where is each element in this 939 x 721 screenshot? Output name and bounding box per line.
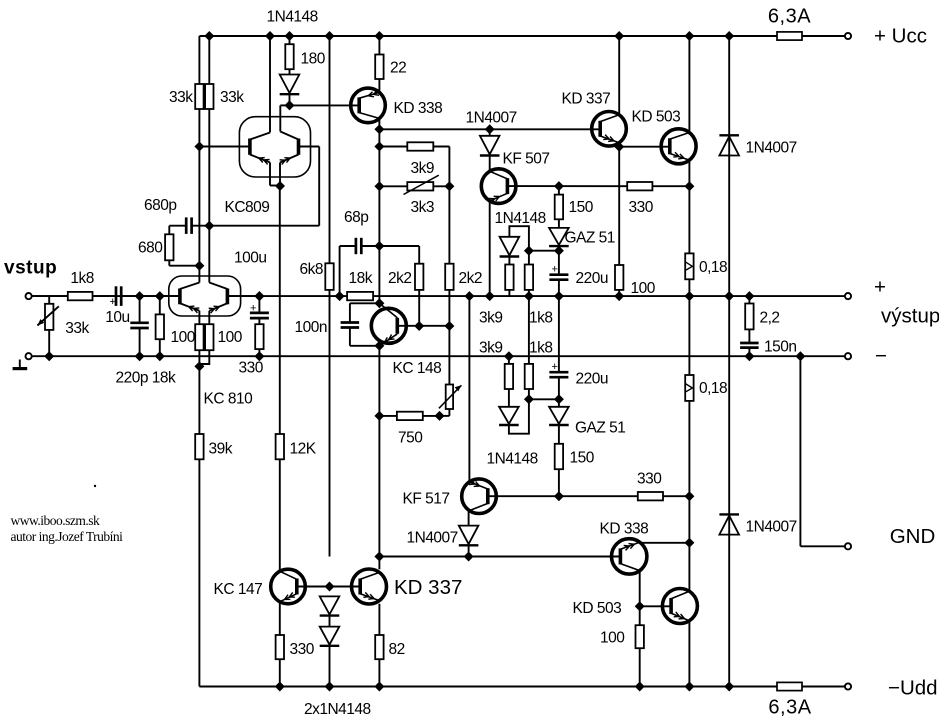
node 10u/220p bbox=[135, 291, 145, 301]
svg-text:autor ing.Jozef Trubíni: autor ing.Jozef Trubíni bbox=[11, 529, 124, 544]
wire KD503l base bbox=[640, 605, 672, 607]
label 33k pot bbox=[65, 320, 89, 337]
svg-text:220u: 220u bbox=[576, 371, 608, 388]
wire 2k2a top bbox=[379, 246, 419, 264]
wire KD337 lower collector bbox=[378, 557, 380, 570]
label 750 bbox=[398, 430, 423, 447]
resistor 330 upper right bbox=[627, 182, 689, 190]
KC809 left base bar bbox=[248, 139, 252, 155]
label KC 810 bbox=[204, 391, 254, 408]
svg-text:výstup: výstup bbox=[881, 305, 939, 328]
wire KD503u emitter bbox=[688, 160, 690, 253]
svg-text:220u: 220u bbox=[576, 270, 608, 287]
svg-text:+: + bbox=[552, 361, 558, 373]
svg-text:2x1N4148: 2x1N4148 bbox=[304, 701, 371, 718]
node output rail KF507 emit bbox=[485, 291, 495, 301]
wire 1N4148 upper loop bbox=[509, 226, 529, 251]
svg-text:12K: 12K bbox=[290, 441, 317, 458]
KC809 right emitter bbox=[280, 155, 299, 187]
diode 1N4007 lower bbox=[459, 510, 479, 557]
resistor 3k9 lower col bbox=[505, 356, 513, 407]
svg-text:100: 100 bbox=[218, 329, 243, 346]
svg-text:39k: 39k bbox=[209, 441, 233, 458]
resistor 3k9 horizontal bbox=[379, 142, 449, 150]
resistor 180 bbox=[285, 36, 293, 75]
svg-text:1N4007: 1N4007 bbox=[407, 530, 458, 547]
KC810 right emitter bbox=[209, 303, 228, 324]
node diode stack bottom bbox=[325, 682, 335, 692]
node 220p bottom bbox=[135, 351, 145, 361]
resistor 2k2 b bbox=[445, 264, 453, 326]
resistor 0,18 lower bbox=[685, 296, 693, 496]
label 0,18 lower bbox=[699, 380, 727, 397]
node KD337l base bbox=[325, 582, 335, 592]
label 680 bbox=[138, 240, 163, 257]
node 18k bottom bbox=[155, 351, 165, 361]
wire 68p left bbox=[340, 246, 356, 296]
svg-text:−: − bbox=[875, 345, 887, 368]
KC809 right collector bbox=[280, 105, 298, 139]
wire input bbox=[32, 295, 68, 297]
node KC810 base right bbox=[254, 291, 264, 301]
wire bottom -Udd rail bbox=[199, 686, 845, 688]
label 1k8 bbox=[70, 270, 94, 287]
label 1N4148 top bbox=[267, 9, 318, 26]
node 3k9 lower top bbox=[504, 351, 514, 361]
label 180 bbox=[301, 51, 326, 68]
resistor 33k left bbox=[195, 84, 203, 109]
node 2,2 bottom bbox=[744, 351, 754, 361]
wire - rail bbox=[32, 355, 845, 357]
wire KF507 emitter bbox=[489, 200, 491, 296]
wire KD338l emitter bbox=[639, 570, 641, 625]
resistor 100 left a bbox=[195, 324, 203, 366]
wire KC810 base left bbox=[160, 295, 180, 297]
label 2x1N4148 bbox=[304, 701, 371, 718]
label + bbox=[874, 276, 886, 299]
svg-text:2k2: 2k2 bbox=[459, 270, 483, 287]
svg-text:KC 147: KC 147 bbox=[214, 581, 263, 598]
wire 1k8 to 10u bbox=[93, 295, 117, 297]
svg-text:2,2: 2,2 bbox=[760, 310, 780, 327]
label 150 lower bbox=[570, 450, 595, 467]
diode 1N4007 right upper bbox=[719, 36, 739, 296]
fuse 6,3A top bbox=[777, 32, 802, 40]
wire KC809 right base loop bbox=[209, 147, 319, 226]
svg-text:6k8: 6k8 bbox=[300, 261, 324, 278]
wire KD337l base bbox=[330, 586, 361, 588]
node KF517 base bbox=[554, 491, 564, 501]
wire KD337l emitter bbox=[378, 604, 380, 635]
node KD338 emitter bbox=[374, 124, 384, 134]
svg-text:330: 330 bbox=[629, 199, 654, 216]
label GAZ 51 upper bbox=[565, 230, 615, 247]
label 330 feedback bbox=[239, 360, 264, 377]
svg-text:KD 503: KD 503 bbox=[573, 600, 622, 617]
label 330 left lower bbox=[290, 641, 315, 658]
label 1N4148 mid upper bbox=[495, 210, 546, 227]
wire KD338 emitter column bbox=[378, 118, 380, 303]
node 330 fb bottom bbox=[254, 351, 264, 361]
node KD503u collector top bbox=[684, 31, 694, 41]
svg-text:82: 82 bbox=[389, 641, 405, 658]
node output rail 100 bbox=[614, 291, 624, 301]
label KD 503 lower bbox=[573, 600, 622, 617]
wire diode to KD338 base bbox=[290, 104, 360, 106]
wire input to output rail bbox=[32, 295, 180, 297]
label KD 338 lower bbox=[600, 521, 649, 538]
svg-text:KD 337: KD 337 bbox=[394, 576, 462, 599]
resistor 150 upper bbox=[555, 186, 563, 228]
wire 10u to pair bbox=[121, 295, 180, 297]
wire 680p right bbox=[192, 225, 210, 227]
node KD337u collector top bbox=[614, 31, 624, 41]
node 3k3 left bbox=[374, 181, 384, 191]
diode 1N4148 mid upper bbox=[500, 237, 520, 265]
svg-text:GAZ 51: GAZ 51 bbox=[565, 230, 615, 247]
node 330 lower right bbox=[684, 491, 694, 501]
wire KC147 base bbox=[297, 586, 330, 588]
svg-text:vstup: vstup bbox=[4, 258, 57, 279]
node output rail KC810 base2 bbox=[254, 291, 264, 301]
svg-text:+: + bbox=[250, 303, 256, 315]
svg-text:KD 338: KD 338 bbox=[600, 521, 649, 538]
wire KF517 collector bbox=[468, 296, 470, 482]
wire KD503l emitter bbox=[688, 620, 690, 687]
KC809 left emitter bbox=[250, 155, 280, 186]
node output rail 0,18 bbox=[684, 291, 694, 301]
label 1k8 col b bbox=[529, 340, 553, 357]
label 2k2 b bbox=[459, 270, 483, 287]
svg-text:+: + bbox=[874, 276, 886, 299]
capacitor 150n bbox=[740, 343, 759, 356]
label vstup bbox=[4, 258, 57, 279]
wire bias column down bbox=[378, 416, 380, 557]
resistor 1k8 upper col bbox=[525, 251, 533, 296]
resistor 12K bbox=[276, 434, 284, 459]
svg-text:KC 148: KC 148 bbox=[393, 360, 442, 377]
transistor KC147 bbox=[271, 569, 306, 604]
KC810 left emitter bbox=[180, 303, 200, 324]
trimmer 750 vertical bbox=[439, 326, 462, 416]
label 39k bbox=[209, 441, 233, 458]
svg-text:−Udd: −Udd bbox=[888, 677, 938, 700]
label 6,3A top bbox=[768, 6, 811, 28]
node KF507 base bbox=[554, 181, 564, 191]
node KD338l collector bbox=[684, 538, 694, 548]
node KD338l bottom bbox=[635, 682, 645, 692]
node KC148 base a bbox=[414, 321, 424, 331]
svg-text:100: 100 bbox=[171, 329, 196, 346]
KC810 left base bar bbox=[178, 289, 182, 305]
svg-text:220p 18k: 220p 18k bbox=[116, 370, 177, 387]
resistor 100 upper bbox=[615, 147, 623, 296]
capacitor 100u bbox=[250, 296, 269, 324]
node KD338l emitter bbox=[635, 601, 645, 611]
capacitor 220u lower bbox=[549, 296, 568, 399]
node KC148 base b bbox=[444, 321, 454, 331]
diode 1N4148 mid lower bbox=[499, 407, 519, 425]
svg-text:1N4007: 1N4007 bbox=[746, 140, 797, 157]
svg-text:10u: 10u bbox=[105, 309, 129, 326]
label 100 a bbox=[171, 329, 196, 346]
transistor KF507 bbox=[481, 169, 516, 204]
node 33k2 top bbox=[204, 31, 214, 41]
wire 1N4148 lower loop bbox=[509, 399, 529, 433]
label + Ucc bbox=[874, 25, 927, 48]
svg-text:330: 330 bbox=[637, 471, 662, 488]
svg-text:3k9: 3k9 bbox=[479, 310, 503, 327]
resistor 1k8 input bbox=[68, 292, 93, 300]
diode 1N4007 upper bbox=[480, 129, 500, 172]
wire KC147 emitter bbox=[279, 601, 281, 635]
svg-text:180: 180 bbox=[301, 51, 326, 68]
terminal - vystup bbox=[845, 353, 851, 359]
svg-text:www.iboo.szm.sk: www.iboo.szm.sk bbox=[11, 513, 100, 528]
svg-text:1N4148: 1N4148 bbox=[487, 451, 538, 468]
wire 68p right bbox=[361, 245, 379, 247]
label autor bbox=[11, 529, 124, 544]
KC809 left collector bbox=[250, 36, 270, 140]
resistor 2k2 a bbox=[415, 264, 423, 326]
wire KD503u collector bbox=[688, 36, 690, 133]
node gaz upper b bbox=[554, 246, 564, 256]
wire KD503l collector bbox=[688, 496, 690, 592]
label 33k left bbox=[169, 89, 193, 106]
svg-text:GND: GND bbox=[890, 525, 936, 548]
svg-text:6,3A: 6,3A bbox=[768, 697, 811, 719]
node driver rail diode bbox=[485, 124, 495, 134]
label 100u bbox=[234, 250, 266, 267]
node 680p/base2 bbox=[204, 221, 214, 231]
terminal GND bbox=[845, 543, 851, 549]
resistor 3k3 thermistor bbox=[379, 175, 449, 194]
svg-text:1k8: 1k8 bbox=[529, 310, 553, 327]
label KD 503 upper bbox=[632, 109, 681, 126]
stray dot bbox=[94, 485, 96, 487]
label KC 148 bbox=[393, 360, 442, 377]
wire KD337u collector bbox=[618, 36, 620, 115]
node 3k9h left bbox=[374, 142, 384, 152]
terminal + Ucc bbox=[845, 33, 851, 39]
node 22 top bbox=[374, 31, 384, 41]
diode 1N4148 stack b bbox=[320, 627, 340, 687]
wire 33k right col bbox=[208, 109, 210, 226]
svg-text:KF 507: KF 507 bbox=[503, 151, 550, 168]
wire KF517 base bbox=[488, 495, 559, 497]
svg-text:3k9: 3k9 bbox=[479, 340, 503, 357]
resistor 6k8 bbox=[325, 36, 333, 557]
resistor 33k right bbox=[205, 36, 213, 109]
label 68p bbox=[344, 209, 368, 226]
label 6k8 bbox=[300, 261, 324, 278]
node KC148 collector bbox=[374, 298, 384, 308]
resistor 1k8 lower col bbox=[525, 296, 533, 399]
label 22 bbox=[390, 60, 406, 77]
node KD337u emitter bbox=[614, 142, 624, 152]
capacitor 10u bbox=[110, 286, 122, 308]
node 18k top bbox=[155, 291, 165, 301]
label 3k9 col b bbox=[479, 340, 503, 357]
label GND bbox=[890, 525, 936, 548]
resistor 39k bbox=[195, 366, 203, 686]
resistor 22 bbox=[375, 36, 383, 93]
resistor 150 lower bbox=[555, 444, 563, 496]
svg-text:33k: 33k bbox=[169, 89, 193, 106]
transistor KD503 upper bbox=[661, 129, 696, 164]
transistor KD338 lower bbox=[612, 539, 647, 574]
KC810 right base bar bbox=[226, 289, 230, 305]
svg-text:100u: 100u bbox=[234, 250, 266, 267]
resistor 100 left b bbox=[199, 324, 213, 364]
svg-text:100n: 100n bbox=[295, 319, 327, 336]
svg-text:33k: 33k bbox=[65, 320, 89, 337]
label 680p bbox=[144, 197, 176, 214]
svg-text:1N4007: 1N4007 bbox=[466, 110, 517, 127]
transistor KD338 upper bbox=[351, 88, 386, 123]
svg-text:KF 517: KF 517 bbox=[403, 491, 450, 508]
resistor 750 bbox=[379, 412, 439, 420]
svg-text:100: 100 bbox=[600, 630, 625, 647]
svg-text:33k: 33k bbox=[220, 89, 244, 106]
label 330 lower right bbox=[637, 471, 662, 488]
label 3k9 horizontal bbox=[411, 160, 435, 177]
label 220p 18k bbox=[116, 370, 177, 387]
node output rail 220u bbox=[554, 291, 564, 301]
resistor 18k vertical bbox=[156, 296, 164, 356]
diode 1N4148 top bbox=[280, 75, 300, 106]
node gaz lower b bbox=[554, 394, 564, 404]
label 1N4007 upper bbox=[466, 110, 517, 127]
resistor 82 bbox=[375, 635, 383, 687]
label 3k3 bbox=[411, 199, 435, 216]
label 330 upper right bbox=[629, 199, 654, 216]
wire output rail bbox=[227, 295, 845, 297]
label KC 147 bbox=[214, 581, 263, 598]
svg-text:150n: 150n bbox=[764, 339, 796, 356]
label 1N4148 mid lower bbox=[487, 451, 538, 468]
wire KC810 base right bbox=[227, 295, 259, 297]
node KC809 emitters bbox=[275, 181, 285, 191]
node gaz lower a bbox=[524, 394, 534, 404]
svg-text:1N4148: 1N4148 bbox=[267, 9, 318, 26]
resistor 330 feedback bbox=[255, 324, 263, 356]
capacitor 680p bbox=[186, 217, 191, 234]
label 33k right bbox=[220, 89, 244, 106]
svg-text:0,18: 0,18 bbox=[699, 259, 727, 276]
transistor KC148 bbox=[371, 303, 406, 346]
node KD503u emitter/330 bbox=[684, 181, 694, 191]
label 220u lower bbox=[576, 371, 608, 388]
diode 1N4148 stack a bbox=[320, 596, 340, 626]
label 12K bbox=[290, 441, 317, 458]
node output rail KF517 col bbox=[464, 291, 474, 301]
node 33k/base bbox=[194, 142, 204, 152]
node output rail 2,2 bbox=[744, 291, 754, 301]
svg-text:KD 337: KD 337 bbox=[562, 91, 611, 108]
svg-text:150: 150 bbox=[570, 450, 595, 467]
label 3k9 col a bbox=[479, 310, 503, 327]
terminal vstup lower bbox=[26, 353, 32, 359]
label - bbox=[875, 345, 887, 368]
node 68p/2k2a bbox=[374, 241, 384, 251]
label 100 b bbox=[218, 329, 243, 346]
fuse 6,3A bottom bbox=[777, 682, 802, 690]
resistor 680 bbox=[165, 234, 173, 260]
svg-text:3k3: 3k3 bbox=[411, 199, 435, 216]
svg-text:680p: 680p bbox=[144, 197, 176, 214]
svg-text:680: 680 bbox=[138, 240, 163, 257]
svg-text:1k8: 1k8 bbox=[70, 270, 94, 287]
label 10u bbox=[105, 309, 129, 326]
svg-text:+ Ucc: + Ucc bbox=[874, 25, 927, 48]
label 1N4007 lower bbox=[407, 530, 458, 547]
diode GAZ 51 lower bbox=[549, 399, 569, 444]
node 3k3 right bbox=[444, 181, 454, 191]
resistor 100 lower bbox=[636, 625, 644, 686]
wire 33k left to KC809 base bbox=[199, 109, 250, 147]
wire KC148 emitter down bbox=[378, 346, 380, 416]
svg-text:1N4148: 1N4148 bbox=[495, 210, 546, 227]
label vystup bbox=[881, 305, 939, 328]
svg-text:1k8: 1k8 bbox=[529, 340, 553, 357]
node KD503l bottom bbox=[684, 682, 694, 692]
resistor 0,18 upper bbox=[685, 253, 693, 296]
svg-text:2k2: 2k2 bbox=[388, 270, 412, 287]
terminal + vystup bbox=[845, 293, 851, 299]
svg-text:6,3A: 6,3A bbox=[768, 6, 811, 28]
label 1k8 col a bbox=[529, 310, 553, 327]
label 2,2 bbox=[760, 310, 780, 327]
svg-text:100: 100 bbox=[631, 280, 656, 297]
resistor 330 left lower bbox=[276, 635, 284, 687]
node 1N4007 right bottom bbox=[724, 682, 734, 692]
wire KC147 collector column bbox=[279, 186, 281, 572]
resistor 2,2 bbox=[745, 296, 753, 343]
node bias rail left bbox=[374, 552, 384, 562]
label 100 lower bbox=[600, 630, 625, 647]
resistor 330 lower right bbox=[559, 492, 690, 500]
wire bias rail lower bbox=[379, 556, 620, 558]
label 2k2 a bbox=[388, 270, 412, 287]
capacitor 100n bbox=[341, 303, 380, 346]
wire KD337u emitter to KD503 base bbox=[619, 146, 670, 148]
svg-text:150: 150 bbox=[569, 199, 594, 216]
svg-text:68p: 68p bbox=[344, 209, 368, 226]
label www bbox=[11, 513, 100, 528]
wire 680 bottom bbox=[169, 260, 199, 265]
label 1N4007 right upper bbox=[746, 140, 797, 157]
label 6,3A bottom bbox=[768, 697, 811, 719]
node 18k/68p bbox=[335, 291, 345, 301]
node 750 left bbox=[374, 411, 384, 421]
node diode/KD338 base bbox=[285, 100, 295, 110]
resistor 3k9 upper col bbox=[505, 265, 513, 297]
label KF 517 bbox=[403, 491, 450, 508]
node output rail 1N4007 bbox=[724, 291, 734, 301]
wire driver rail bbox=[379, 128, 600, 130]
label 82 bbox=[389, 641, 405, 658]
wire 680p left to 680 bbox=[169, 226, 186, 235]
resistor 18k horizontal bbox=[347, 292, 373, 300]
wire 2k2b column bbox=[448, 147, 450, 264]
svg-text:18k: 18k bbox=[349, 270, 373, 287]
svg-text:330: 330 bbox=[290, 641, 315, 658]
node 6k8 top bbox=[325, 31, 335, 41]
label GAZ 51 lower bbox=[575, 420, 625, 437]
capacitor 68p bbox=[356, 238, 361, 254]
svg-text:+: + bbox=[110, 296, 116, 308]
